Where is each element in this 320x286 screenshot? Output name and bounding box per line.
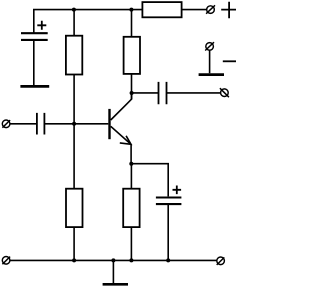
node junction C3 bottom on rail xyxy=(166,258,170,262)
capacitor C4 output coupling cap xyxy=(159,82,167,104)
wire R2 top lead xyxy=(131,10,133,37)
wire base node down to R3 xyxy=(73,124,75,189)
wire R2 bottom lead to collector node xyxy=(131,74,133,99)
transistor Q1 emitter diagonal with arrowhead xyxy=(111,126,131,144)
wire C1 bottom lead xyxy=(33,40,35,85)
node junction emitter xyxy=(129,162,133,166)
terminal bottom right (circle with slash) xyxy=(217,257,225,265)
plus sign C3 polarity xyxy=(173,186,182,195)
wire top supply rail left segment (with corner down to C1) xyxy=(34,10,143,34)
terminal positive supply (circle with slash) xyxy=(206,5,215,13)
node junction R4 bottom on rail xyxy=(129,258,133,262)
wire R1 bottom lead down to base node xyxy=(73,75,75,124)
resistor R4 (emitter resistor) xyxy=(123,189,139,227)
wire R1 top lead xyxy=(73,10,75,36)
wire R4 top lead xyxy=(130,164,132,189)
node junction collector xyxy=(130,91,134,95)
ground bar bottom center xyxy=(103,283,128,286)
wire supply return terminal down to ground xyxy=(209,50,211,73)
ground bar supply return xyxy=(199,73,224,76)
wire emitter vertical to emitter node xyxy=(130,144,132,163)
minus sign supply polarity xyxy=(223,60,237,62)
wire collector node to C4 xyxy=(132,92,159,94)
wire bottom rail xyxy=(10,259,217,261)
plus sign supply polarity xyxy=(221,2,237,19)
wire top supply rail right segment xyxy=(182,9,207,11)
terminal input (circle with slash) xyxy=(2,120,10,128)
capacitor C3 emitter bypass electrolytic plates xyxy=(156,198,182,205)
resistor R2 (collector resistor) xyxy=(124,37,140,74)
plus sign C1 polarity xyxy=(37,21,46,30)
capacitor C1 electrolytic filter cap plates xyxy=(21,33,48,40)
resistor R3 (lower bias resistor) xyxy=(66,189,83,227)
node junction R1 top on rail xyxy=(72,8,76,12)
transistor Q1 base bar xyxy=(108,109,110,139)
node junction R2 top on rail xyxy=(129,8,133,12)
wire emitter node to C3 (corner) xyxy=(131,164,168,197)
wire R3 bottom lead xyxy=(73,227,75,260)
wire input terminal to C2 xyxy=(10,123,37,125)
node junction ground stub on rail xyxy=(111,258,115,262)
terminal bottom left (circle with slash) xyxy=(2,257,10,265)
wire R4 bottom lead xyxy=(130,227,132,260)
node junction R3 bottom on rail xyxy=(72,258,76,262)
wire C3 bottom lead xyxy=(167,204,169,260)
transistor Q1 collector diagonal xyxy=(111,93,132,120)
terminal output (circle with slash NW-SE) xyxy=(220,88,229,97)
node junction base / divider xyxy=(72,122,76,126)
resistor R1 (upper bias resistor) xyxy=(66,36,82,75)
ground bar under C1 xyxy=(20,85,49,88)
resistor R5 (series supply resistor, horizontal) xyxy=(142,2,181,17)
wire C2 to transistor base xyxy=(44,123,108,125)
capacitor C2 input coupling cap xyxy=(37,113,45,135)
wire C4 to output terminal xyxy=(167,92,221,94)
wire ground stub xyxy=(112,260,114,283)
terminal supply return (circle with slash) xyxy=(205,42,214,50)
